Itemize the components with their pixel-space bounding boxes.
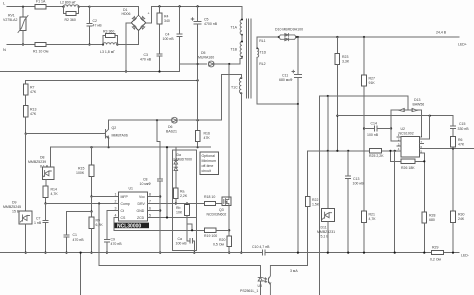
wire DC- rail y72: [0, 71, 180, 73]
transformer core: [247, 19, 251, 98]
junction Q2 emitter on 147 line: [108, 146, 110, 148]
svg-text:C11: C11: [282, 73, 288, 77]
resistor R13: [23, 106, 28, 118]
svg-text:100 нВ: 100 нВ: [367, 133, 379, 137]
capacitor C2: [89, 7, 91, 45]
svg-text:T1B: T1B: [231, 48, 238, 52]
wire Q2 collector up to Vcc line: [108, 120, 110, 129]
svg-text:T1A: T1A: [231, 26, 238, 30]
junction R15 top on 147 line: [90, 146, 92, 148]
wire R7 to R13: [25, 95, 27, 106]
junction C9 gnd: [106, 252, 108, 254]
svg-text:R14: R14: [51, 188, 57, 192]
junction R9 gnd: [90, 252, 92, 254]
svg-text:7: 7: [149, 199, 151, 203]
svg-text:Minimum: Minimum: [202, 159, 217, 163]
svg-text:1: 1: [115, 192, 117, 196]
junction DC- drop: [125, 70, 127, 72]
diode D5 MURA160: [209, 62, 214, 66]
wire R15 to MFP line: [91, 177, 93, 197]
capacitor C3: [157, 54, 162, 56]
svg-text:C3: C3: [144, 53, 149, 57]
resistor R23: [336, 37, 338, 53]
svg-text:LED-: LED-: [461, 254, 470, 258]
svg-text:10K: 10K: [176, 211, 183, 215]
junction D11 net on y96: [327, 95, 329, 97]
U2 pin stubs left: [397, 137, 401, 151]
wire C3 to DC- rail: [159, 56, 161, 71]
svg-text:680 мкФ: 680 мкФ: [279, 78, 293, 82]
wire R13 to divider node: [25, 117, 27, 134]
capacitor C13: [347, 151, 349, 176]
wire D13 left to C14 node: [391, 110, 397, 129]
svg-text:L2 800 мГ: L2 800 мГ: [60, 1, 76, 5]
wire bias node line y150: [308, 150, 349, 152]
svg-text:8: 8: [149, 192, 151, 196]
resistor Rb: [186, 204, 188, 205]
wire C14 node to U2 pin2: [391, 129, 401, 142]
wire fb divider line y115.7: [337, 116, 453, 126]
svg-text:Rb: Rb: [176, 206, 181, 210]
svg-text:47 нВ: 47 нВ: [93, 24, 103, 28]
wire DC- to D5 line: [180, 64, 207, 72]
svg-text:100 нВ: 100 нВ: [163, 37, 175, 41]
wire U2 comp drop to gnd: [394, 151, 396, 253]
diode D6 BAS21: [172, 118, 177, 122]
junction T1C gnd: [240, 252, 242, 254]
junction R27 top: [363, 36, 365, 38]
svg-text:HD06: HD06: [122, 12, 131, 16]
svg-text:N: N: [3, 47, 6, 52]
junction R16 top on Vcc line: [197, 119, 199, 121]
svg-text:RL2: RL2: [259, 62, 265, 66]
wire Q3 drain stub: [228, 196, 230, 199]
resistor R3 (parallel with L3): [103, 36, 117, 45]
wire ZCD pin line: [147, 217, 196, 219]
optional circuit text box: [200, 152, 219, 175]
junction Rb on CS line: [191, 229, 193, 231]
svg-text:MMBZ5239: MMBZ5239: [28, 160, 46, 164]
svg-text:470 нВ: 470 нВ: [111, 242, 123, 246]
junction D11 gnd: [327, 252, 329, 254]
svg-text:U1: U1: [129, 187, 134, 191]
junction GND pin tap: [159, 209, 161, 211]
wire L input to fuse: [7, 6, 35, 8]
junction C8 column at gnd rail: [159, 252, 161, 254]
svg-text:ZCD: ZCD: [137, 216, 145, 220]
junction Q3 drain tap: [228, 63, 230, 65]
junction MFP tap: [90, 195, 92, 197]
svg-text:100 нВ: 100 нВ: [176, 241, 188, 245]
svg-text:GND: GND: [137, 209, 145, 213]
svg-text:R4: R4: [164, 15, 169, 19]
junction R21 gnd: [363, 252, 365, 254]
svg-text:D6: D6: [168, 125, 173, 129]
resistor R14: [43, 186, 48, 198]
junction C1 gnd: [65, 252, 67, 254]
junction C4 on DC+ rail: [179, 5, 181, 7]
junction C13 tap: [347, 150, 349, 152]
svg-text:Da: Da: [177, 153, 182, 157]
svg-text:91K: 91K: [369, 81, 376, 85]
svg-text:R7: R7: [30, 85, 35, 89]
svg-text:NCD03N602: NCD03N602: [207, 212, 227, 216]
svg-text:1,5К: 1,5К: [312, 203, 320, 207]
resistor R1: [35, 42, 46, 46]
wire ground rail: [0, 252, 459, 254]
wire T1A to T1B: [241, 35, 243, 42]
wire base line to Q2: [26, 133, 106, 135]
svg-text:PS2561L_1: PS2561L_1: [240, 289, 258, 293]
capacitor C10 (Y-cap in gnd rail): [263, 250, 266, 255]
resistor R7: [23, 84, 28, 95]
resistor R15: [91, 147, 93, 165]
junction C5/D5/line81 node: [197, 63, 199, 65]
wire T1C bottom to gnd: [240, 93, 242, 252]
resistor R26 feedback loop: [391, 151, 425, 162]
wire R15 column down: [91, 197, 93, 212]
capacitor Ca: [190, 239, 193, 243]
junction R29 right: [452, 252, 454, 254]
wire R27 down: [363, 86, 365, 211]
wire opto bias from R22: [270, 265, 307, 267]
svg-text:R13: R13: [30, 107, 36, 111]
wire Ct pin to C9: [107, 211, 119, 240]
wire D11 column upper: [327, 96, 329, 151]
wire Ra to DRV line: [175, 199, 177, 204]
junction C2 bottom: [88, 43, 90, 45]
svg-text:NCL30000: NCL30000: [117, 223, 141, 229]
svg-text:R22: R22: [312, 198, 318, 202]
junction R4 on DC+ rail: [158, 5, 160, 7]
junction R6 bottom on y148.7: [452, 148, 454, 150]
svg-text:RV1: RV1: [8, 14, 15, 18]
svg-text:C15: C15: [459, 122, 465, 126]
svg-text:Ca: Ca: [178, 237, 183, 241]
svg-text:D13: D13: [414, 98, 420, 102]
junction line81 on C5 column: [197, 79, 199, 81]
capacitor C4: [179, 6, 181, 71]
junction Ra on DRV line: [175, 202, 177, 204]
svg-text:100K: 100K: [76, 171, 85, 175]
resistor R21: [362, 211, 367, 223]
svg-text:MFP: MFP: [121, 195, 129, 199]
svg-text:330 нВ: 330 нВ: [458, 127, 470, 131]
resistor R2 (parallel with L2): [64, 7, 79, 14]
svg-text:R30: R30: [458, 213, 464, 217]
wire GND pin 6: [147, 210, 160, 212]
wire opto feedback line y96: [320, 96, 409, 109]
wire L3 to bridge bottom: [117, 31, 138, 45]
junction U2 comp pin drop: [394, 150, 396, 152]
wire R25 to C13 tap: [348, 150, 369, 152]
svg-text:C14: C14: [371, 122, 377, 126]
svg-text:4: 4: [115, 213, 117, 217]
svg-text:15 В: 15 В: [12, 209, 20, 213]
svg-text:U2: U2: [401, 127, 406, 131]
svg-text:T1C: T1C: [231, 86, 238, 90]
junction Ca gnd: [193, 252, 195, 254]
svg-text:Ra: Ra: [180, 189, 185, 193]
wire Vcc pin 8: [147, 196, 160, 198]
junction C8 tap on Vcc line: [156, 119, 158, 121]
resistor R9: [91, 212, 93, 218]
svg-text:+: +: [148, 12, 150, 16]
svg-text:C4: C4: [165, 33, 170, 37]
svg-text:R29: R29: [432, 246, 438, 250]
junction Rb on DRV line: [186, 202, 188, 204]
svg-text:Q2: Q2: [112, 126, 117, 130]
wire Q3 source to R20: [228, 205, 230, 236]
svg-text:Vcc: Vcc: [139, 195, 145, 199]
U2 pin stubs right: [420, 139, 424, 153]
junction C5 on DC+ rail: [197, 5, 199, 7]
svg-text:R20: R20: [219, 238, 225, 242]
junction L2 left: [62, 6, 64, 8]
wire HV sense line y80 to R7: [26, 80, 198, 84]
wire R4 to C3: [159, 24, 161, 54]
wire R22 to opto: [307, 207, 309, 266]
svg-text:2: 2: [115, 199, 117, 203]
svg-text:4700 нВ: 4700 нВ: [204, 22, 218, 26]
wire Rb to Ca: [187, 224, 190, 241]
wire D5 to switch node: [213, 59, 241, 65]
capacitor C1: [64, 235, 69, 237]
wire Q2 emitter down to 147 line: [108, 139, 110, 148]
wire C7 column: [45, 204, 47, 253]
svg-text:47K: 47K: [30, 112, 37, 116]
wire U2 fb out line y148.7: [420, 148, 474, 150]
svg-text:CS: CS: [121, 216, 127, 220]
svg-text:R15: R15: [78, 167, 84, 171]
wire feedback off-page drop: [319, 96, 321, 295]
wire U2 vcc pin to y115.7: [420, 116, 430, 139]
svg-text:off-time: off-time: [202, 164, 214, 168]
svg-text:BAW56: BAW56: [413, 102, 425, 106]
resistor Ra: [174, 188, 179, 199]
svg-text:47K: 47K: [204, 136, 211, 140]
junction ZCD top: [166, 146, 168, 148]
wire bridge left vertex to DC- rail: [126, 23, 131, 72]
wire fuse to L2: [46, 6, 64, 8]
junction C11 return: [297, 103, 299, 105]
svg-text:0,5 Ом: 0,5 Ом: [213, 242, 225, 246]
wire R20 to gnd: [228, 246, 230, 252]
svg-text:R26 18K: R26 18K: [401, 166, 415, 170]
svg-text:24,4 В: 24,4 В: [436, 30, 447, 34]
capacitor C5 (electrolytic): [197, 6, 199, 64]
junction R23 bottom on y150: [336, 150, 338, 152]
svg-text:F1 1A: F1 1A: [36, 0, 46, 4]
svg-text:470 нВ: 470 нВ: [140, 58, 152, 62]
svg-text:R28: R28: [429, 213, 435, 217]
svg-text:LED+: LED+: [458, 42, 467, 46]
junction D9 gnd: [25, 252, 27, 254]
svg-text:10 мкФ: 10 мкФ: [140, 182, 152, 186]
capacitor C15: [451, 126, 456, 128]
wire R19 to sense node: [216, 229, 229, 231]
junction RV1 top: [22, 6, 24, 8]
svg-text:R19 100: R19 100: [204, 234, 217, 238]
wire R30 column: [452, 149, 454, 211]
optional circuit outer box: [172, 150, 196, 250]
svg-text:2,2K: 2,2K: [180, 194, 188, 198]
wire bridge right vertex to DC+ rail: [146, 6, 152, 22]
junction C3 bottom on DC- rail: [158, 70, 160, 72]
svg-text:6: 6: [149, 206, 151, 210]
svg-text:U3: U3: [258, 284, 263, 288]
svg-text:D9: D9: [12, 201, 17, 205]
junction L3 right: [116, 43, 118, 45]
svg-text:C7: C7: [36, 216, 41, 220]
junction RV1 bottom: [22, 43, 24, 45]
svg-text:MMBZ5245: MMBZ5245: [3, 205, 21, 209]
junction R28 gnd: [423, 252, 425, 254]
svg-text:47K: 47K: [30, 90, 37, 94]
wire opto feedback drop: [99, 204, 260, 266]
wire D8 to R14: [45, 179, 47, 186]
junction R16 on 147 line: [197, 146, 199, 148]
svg-text:1 нВ: 1 нВ: [34, 221, 42, 225]
svg-text:NCS1002: NCS1002: [399, 131, 414, 135]
resistor R27: [363, 37, 365, 75]
svg-text:47K: 47K: [458, 143, 465, 147]
wire Q3 drain vertical: [228, 64, 230, 197]
junction C11 top: [297, 36, 299, 38]
svg-text:DRV: DRV: [138, 202, 146, 206]
svg-text:MMBTA06: MMBTA06: [112, 134, 128, 138]
junction L3 left: [102, 43, 104, 45]
junction C14 tap: [363, 127, 365, 129]
wire R14 to Comp line: [45, 198, 47, 204]
wire R1 to L3: [46, 44, 103, 46]
wire output rail 24V: [257, 36, 459, 38]
wire Rb bottom branch to CS line: [187, 216, 192, 231]
svg-text:C5: C5: [204, 17, 209, 21]
svg-text:C9: C9: [111, 238, 116, 242]
resistor R4: [159, 6, 161, 13]
wire DC+ rail: [152, 5, 243, 7]
resistor R25: [381, 150, 401, 152]
svg-text:24K: 24K: [458, 217, 465, 221]
svg-text:R1 10 Ом: R1 10 Ом: [33, 49, 49, 53]
svg-text:470 нВ: 470 нВ: [73, 238, 85, 242]
wire C11 to gnd rail: [297, 104, 299, 253]
wire earth stub primary: [80, 253, 82, 295]
wire L2 to C2 node: [79, 6, 90, 8]
junction comp drop gnd: [394, 252, 396, 254]
wire CS pin to sense line: [114, 218, 205, 231]
junction L2 right: [78, 6, 80, 8]
wire secondary return: [257, 57, 298, 104]
resistor R6: [451, 136, 456, 147]
svg-text:L3 1,8 мГ: L3 1,8 мГ: [100, 50, 115, 54]
svg-text:3,3K: 3,3K: [342, 60, 350, 64]
capacitor C9: [104, 240, 109, 242]
wire R28 column: [423, 161, 425, 212]
wire divider node down to D9: [25, 134, 27, 211]
svg-text:C10 4,7 нВ: C10 4,7 нВ: [252, 245, 270, 249]
wire R23 down: [336, 64, 338, 150]
junction R23 at fb line: [336, 115, 338, 117]
junction divider node: [25, 133, 27, 135]
junction R20 gnd: [228, 252, 230, 254]
resistor R28: [422, 212, 427, 223]
svg-text:circuit: circuit: [202, 169, 211, 173]
resistor R16: [197, 64, 199, 130]
svg-text:Comp: Comp: [121, 202, 130, 206]
svg-text:R21: R21: [369, 212, 375, 216]
junction R26 right: [423, 160, 425, 162]
svg-text:MMBZ5231: MMBZ5231: [317, 230, 335, 234]
wire 147 line corner to D8: [50, 147, 52, 167]
svg-text:D11: D11: [321, 226, 327, 230]
junction U2 vcc tap on y115.7: [429, 115, 431, 117]
resistor R20: [227, 236, 232, 247]
wire R16 bottom to 147 line: [197, 141, 199, 147]
svg-text:Q3: Q3: [219, 208, 224, 212]
svg-text:100 нВ: 100 нВ: [353, 181, 365, 185]
svg-text:RL1: RL1: [259, 39, 265, 43]
junction Vcc pin tap: [159, 195, 161, 197]
svg-text:4,7K: 4,7K: [51, 192, 59, 196]
svg-text:C1: C1: [73, 233, 78, 237]
svg-text:3: 3: [115, 206, 117, 210]
svg-text:R18 10: R18 10: [204, 195, 215, 199]
wire MFP pin 1: [92, 196, 119, 198]
svg-text:C2: C2: [93, 19, 98, 23]
junction C1 branch: [90, 210, 92, 212]
resistor R29 (current sense in LED return): [432, 251, 444, 255]
junction R26 left on R25 line: [389, 150, 391, 152]
inductor L3: [103, 43, 117, 45]
svg-text:C8: C8: [143, 177, 148, 181]
resistor R19: [205, 228, 217, 232]
svg-text:D5: D5: [201, 51, 206, 55]
wire N input: [7, 44, 35, 46]
resistor R30: [451, 211, 456, 223]
junction R23 top: [336, 36, 338, 38]
svg-text:D8: D8: [40, 156, 45, 160]
capacitor C8: [158, 179, 163, 181]
svg-text:D10 MBRD9H100: D10 MBRD9H100: [275, 28, 303, 32]
junction R30 gnd: [452, 252, 454, 254]
wire Vcc line y120: [109, 119, 222, 121]
svg-text:R25 2,2K: R25 2,2K: [369, 154, 384, 158]
junction D11 on y150: [327, 150, 329, 152]
wire DRV line: [147, 203, 204, 205]
junction CS sense node: [228, 229, 230, 231]
junction C11 gnd: [297, 252, 299, 254]
wire D13 right into U2: [419, 110, 422, 137]
svg-text:C13: C13: [353, 177, 359, 181]
svg-text:0,2 Ом: 0,2 Ом: [430, 258, 442, 262]
svg-text:MURA160: MURA160: [198, 56, 214, 60]
svg-text:R27: R27: [369, 76, 375, 80]
svg-text:R2 360: R2 360: [65, 18, 76, 22]
wire C1 branch: [67, 212, 92, 235]
resistor R18: [205, 201, 216, 205]
wire C8 column: [157, 120, 160, 252]
svg-text:4,7К: 4,7К: [369, 217, 377, 221]
U2 pin numbers: [398, 133, 423, 153]
opto transistor side: [268, 278, 270, 283]
resistor R22: [307, 151, 309, 197]
junction comp feedback tap: [98, 202, 100, 204]
svg-text:Ct: Ct: [121, 209, 125, 213]
junction C14 right node: [390, 127, 392, 129]
svg-text:BAS21: BAS21: [166, 130, 177, 134]
